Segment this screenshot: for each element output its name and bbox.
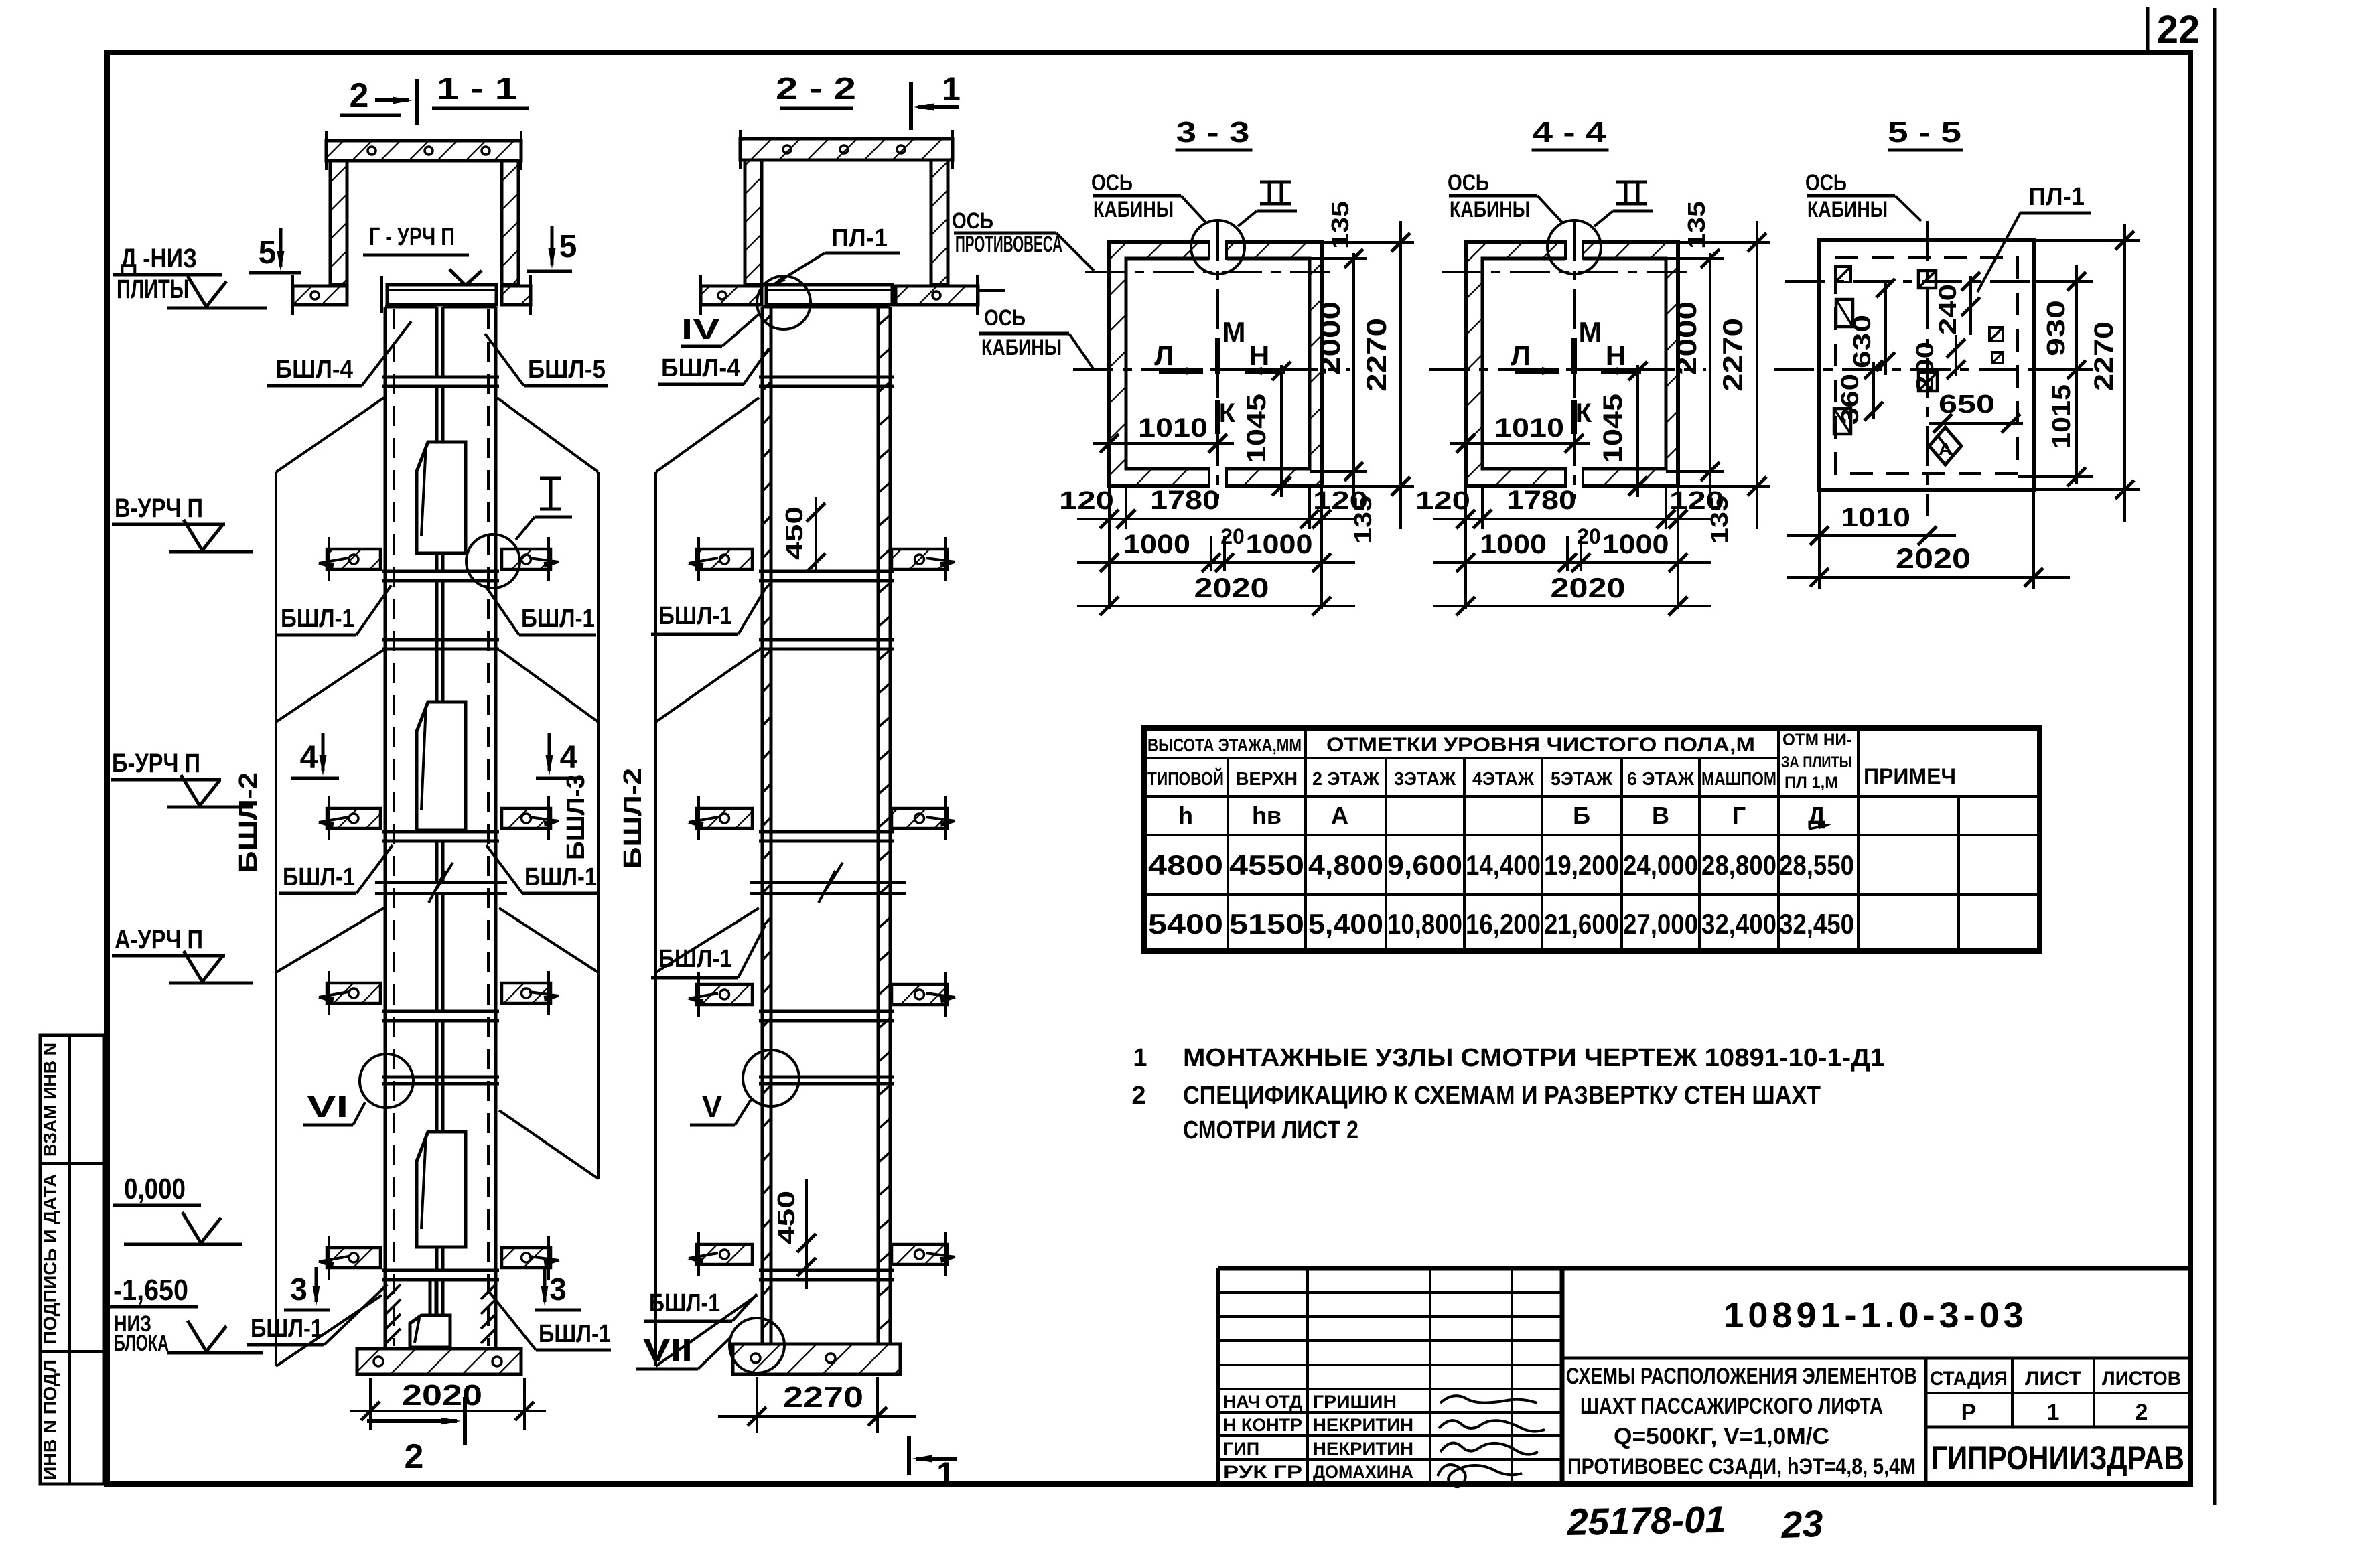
svg-text:Л: Л bbox=[1154, 340, 1174, 371]
svg-text:4800: 4800 bbox=[1148, 849, 1223, 881]
svg-text:4550: 4550 bbox=[1229, 849, 1304, 881]
svg-text:1780: 1780 bbox=[1150, 486, 1220, 515]
svg-text:Н КОНТР: Н КОНТР bbox=[1223, 1415, 1302, 1435]
detail circle IV bbox=[757, 276, 811, 329]
svg-text:СМОТРИ ЛИСТ 2: СМОТРИ ЛИСТ 2 bbox=[1183, 1116, 1358, 1145]
svg-text:БЛОКА: БЛОКА bbox=[114, 1331, 169, 1356]
svg-text:VII: VII bbox=[643, 1333, 693, 1368]
svg-text:2000: 2000 bbox=[1314, 301, 1346, 375]
svg-text:1: 1 bbox=[2047, 1400, 2060, 1425]
svg-text:2270: 2270 bbox=[1360, 318, 1392, 392]
plan walls 3 - 3 bbox=[1109, 242, 1322, 486]
svg-text:2020: 2020 bbox=[1896, 542, 1971, 574]
detail circle I bbox=[466, 534, 520, 588]
svg-text:БШЛ-1: БШЛ-1 bbox=[524, 863, 597, 891]
svg-text:10,800: 10,800 bbox=[1387, 908, 1462, 940]
svg-text:1000: 1000 bbox=[1480, 530, 1547, 559]
svg-text:2270: 2270 bbox=[1717, 318, 1748, 392]
svg-text:2020: 2020 bbox=[1551, 572, 1626, 603]
svg-text:КАБИНЫ: КАБИНЫ bbox=[1093, 197, 1174, 222]
svg-text:16,200: 16,200 bbox=[1466, 908, 1541, 940]
axes 3 - 3 bbox=[1085, 271, 1335, 273]
svg-text:1: 1 bbox=[1133, 1044, 1147, 1072]
pit wall hatching 1-1 bbox=[386, 1284, 401, 1299]
svg-text:1: 1 bbox=[936, 1455, 955, 1493]
svg-text:ОСЬ: ОСЬ bbox=[984, 305, 1026, 331]
svg-text:НАЧ ОТД: НАЧ ОТД bbox=[1223, 1392, 1302, 1412]
machine room top slab 1-1 bbox=[326, 141, 521, 161]
svg-text:1: 1 bbox=[942, 70, 961, 108]
section marker 1 bottom bbox=[907, 1436, 911, 1475]
anchor details 5-5 bbox=[1835, 267, 1851, 282]
bottom wall notch 4 - 4 bbox=[1565, 466, 1583, 489]
document number cell bbox=[1562, 1357, 2190, 1360]
svg-text:360: 360 bbox=[1836, 374, 1864, 425]
svg-text:5,400: 5,400 bbox=[1308, 908, 1383, 940]
top wall notch 3 - 3 bbox=[1209, 240, 1227, 261]
svg-text:25178-01: 25178-01 bbox=[1566, 1498, 1726, 1543]
svg-text:200: 200 bbox=[1911, 342, 1939, 392]
detail circle V bbox=[743, 1050, 799, 1106]
svg-text:БШЛ-2: БШЛ-2 bbox=[234, 772, 263, 873]
bottom dims 3 - 3 bbox=[1108, 486, 1111, 609]
svg-text:ВЫСОТА ЭТАЖА,ММ: ВЫСОТА ЭТАЖА,ММ bbox=[1147, 735, 1302, 755]
block joints 2-2 bbox=[762, 305, 890, 309]
central gap lines 1-1 bbox=[435, 307, 439, 377]
title block frame bbox=[1218, 1266, 2190, 1271]
plan walls 4 - 4 bbox=[1466, 242, 1678, 486]
svg-text:5: 5 bbox=[259, 235, 277, 271]
svg-text:СХЕМЫ РАСПОЛОЖЕНИЯ ЭЛЕМЕНТОВ: СХЕМЫ РАСПОЛОЖЕНИЯ ЭЛЕМЕНТОВ bbox=[1566, 1364, 1917, 1389]
svg-text:БШЛ-1: БШЛ-1 bbox=[251, 1315, 323, 1343]
shaft walls 1-1 bbox=[384, 307, 387, 1349]
signature table bbox=[1218, 1291, 1562, 1294]
svg-text:БШЛ-4: БШЛ-4 bbox=[661, 354, 740, 382]
svg-text:3: 3 bbox=[549, 1272, 567, 1307]
svg-text:1010: 1010 bbox=[1841, 503, 1910, 532]
svg-text:СТАДИЯ: СТАДИЯ bbox=[1930, 1368, 2008, 1390]
svg-text:650: 650 bbox=[1939, 390, 1995, 419]
svg-text:ИНВ N ПОДЛ: ИНВ N ПОДЛ bbox=[40, 1359, 60, 1480]
svg-text:Р: Р bbox=[1961, 1400, 1977, 1425]
svg-text:hв: hв bbox=[1252, 802, 1281, 829]
svg-text:19,200: 19,200 bbox=[1544, 849, 1619, 881]
svg-text:БШЛ-1: БШЛ-1 bbox=[539, 1320, 611, 1348]
svg-text:КАБИНЫ: КАБИНЫ bbox=[1450, 197, 1530, 222]
svg-text:32,400: 32,400 bbox=[1701, 908, 1776, 940]
svg-text:240: 240 bbox=[1934, 284, 1961, 335]
svg-text:2: 2 bbox=[2136, 1400, 2148, 1425]
svg-text:ПРОТИВОВЕС СЗАДИ, hЭТ=4,8, 5,4: ПРОТИВОВЕС СЗАДИ, hЭТ=4,8, 5,4М bbox=[1567, 1454, 1916, 1479]
svg-text:ТИПОВОЙ: ТИПОВОЙ bbox=[1147, 767, 1224, 789]
svg-text:1015: 1015 bbox=[2048, 384, 2076, 449]
svg-text:1010: 1010 bbox=[1494, 413, 1564, 443]
svg-text:2 ЭТАЖ: 2 ЭТАЖ bbox=[1312, 768, 1380, 789]
svg-text:0,000: 0,000 bbox=[124, 1173, 186, 1205]
top wall notch 4 - 4 bbox=[1565, 240, 1583, 261]
svg-text:ОСЬ: ОСЬ bbox=[952, 208, 993, 234]
svg-text:1045: 1045 bbox=[1598, 394, 1628, 463]
svg-text:ВЗАМ ИНВ N: ВЗАМ ИНВ N bbox=[40, 1043, 60, 1157]
svg-text:БШЛ-1: БШЛ-1 bbox=[283, 863, 355, 891]
svg-text:2000: 2000 bbox=[1671, 301, 1702, 375]
plan 5-5 dashed slab edge bbox=[1835, 258, 2018, 473]
svg-text:М: М bbox=[1222, 316, 1246, 348]
svg-text:ШАХТ ПАССАЖИРСКОГО ЛИФТА: ШАХТ ПАССАЖИРСКОГО ЛИФТА bbox=[1580, 1394, 1883, 1419]
svg-text:1000: 1000 bbox=[1123, 530, 1190, 559]
svg-text:МОНТАЖНЫЕ УЗЛЫ СМОТРИ ЧЕРТЕ: МОНТАЖНЫЕ УЗЛЫ СМОТРИ ЧЕРТЕЖ 10891-10-1-… bbox=[1183, 1044, 1885, 1072]
svg-text:5150: 5150 bbox=[1229, 908, 1304, 940]
storey floor slab brackets 2-2 bbox=[697, 549, 752, 569]
leader chevrons 1-1 left bbox=[275, 472, 277, 1366]
svg-text:БШЛ-1: БШЛ-1 bbox=[649, 1289, 720, 1317]
svg-text:Б: Б bbox=[1573, 802, 1590, 829]
svg-text:ОТМЕТКИ УРОВНЯ ЧИСТОГО ПОЛА: ОТМЕТКИ УРОВНЯ ЧИСТОГО ПОЛА,М bbox=[1326, 734, 1755, 756]
svg-text:1000: 1000 bbox=[1602, 530, 1669, 559]
detail circle VII bbox=[729, 1318, 784, 1373]
stadia list listov cells bbox=[1924, 1358, 1928, 1484]
svg-text:ЗА ПЛИТЫ: ЗА ПЛИТЫ bbox=[1781, 753, 1852, 771]
svg-text:20: 20 bbox=[1577, 524, 1601, 548]
svg-text:БШЛ-1: БШЛ-1 bbox=[281, 605, 354, 633]
svg-text:23: 23 bbox=[1780, 1502, 1823, 1544]
leader chevron 2-2 left bbox=[654, 472, 657, 1366]
right dims 3 - 3 bbox=[1352, 253, 1355, 497]
svg-text:630: 630 bbox=[1848, 315, 1876, 368]
svg-text:3: 3 bbox=[290, 1272, 307, 1307]
svg-text:2270: 2270 bbox=[2089, 321, 2119, 391]
svg-text:V: V bbox=[702, 1089, 723, 1124]
svg-text:2020: 2020 bbox=[402, 1379, 482, 1412]
svg-text:6 ЭТАЖ: 6 ЭТАЖ bbox=[1627, 768, 1695, 789]
svg-text:ГИПРОНИИЗДРАВ: ГИПРОНИИЗДРАВ bbox=[1931, 1439, 2184, 1477]
svg-text:14,400: 14,400 bbox=[1466, 849, 1541, 881]
foundation slab 1-1 bbox=[357, 1349, 521, 1374]
svg-text:4,800: 4,800 bbox=[1308, 849, 1383, 881]
svg-text:VI: VI bbox=[307, 1089, 348, 1124]
diamond mark A 5-5 bbox=[1929, 427, 1961, 465]
svg-text:1 - 1: 1 - 1 bbox=[437, 71, 517, 106]
svg-text:2 - 2: 2 - 2 bbox=[776, 71, 856, 106]
machine room right wall 2-2 bbox=[931, 160, 948, 285]
svg-text:450: 450 bbox=[780, 506, 808, 560]
bottom dims 4 - 4 bbox=[1464, 486, 1467, 609]
svg-text:3ЭТАЖ: 3ЭТАЖ bbox=[1394, 768, 1456, 789]
left stamp strip bbox=[40, 1035, 104, 1484]
detail circle II 3 - 3 bbox=[1191, 220, 1245, 274]
svg-text:Л: Л bbox=[1511, 340, 1530, 371]
machine room left wall 1-1 bbox=[330, 161, 347, 285]
svg-text:5: 5 bbox=[559, 229, 577, 265]
block joints 1-1 bbox=[385, 305, 437, 309]
svg-text:В-УРЧ П: В-УРЧ П bbox=[115, 494, 203, 523]
svg-text:КАБИНЫ: КАБИНЫ bbox=[1807, 197, 1888, 222]
svg-text:4: 4 bbox=[300, 740, 318, 776]
svg-text:Г - УРЧ П: Г - УРЧ П bbox=[369, 223, 455, 251]
svg-text:Н: Н bbox=[1606, 340, 1626, 371]
svg-text:В: В bbox=[1652, 802, 1669, 829]
svg-text:ОСЬ: ОСЬ bbox=[1448, 170, 1489, 196]
svg-text:ГИП: ГИП bbox=[1223, 1439, 1259, 1459]
svg-text:32,450: 32,450 bbox=[1779, 908, 1854, 940]
bottom wall notch 3 - 3 bbox=[1209, 466, 1227, 489]
svg-text:А-УРЧ П: А-УРЧ П bbox=[115, 925, 203, 954]
svg-text:2270: 2270 bbox=[783, 1381, 863, 1414]
right dims 4 - 4 bbox=[1709, 253, 1711, 497]
leader chevrons 1-1 right bbox=[597, 472, 600, 1179]
machine room floor slabs 2-2 bbox=[701, 286, 762, 305]
svg-text:9,600: 9,600 bbox=[1387, 849, 1462, 881]
shaft walls 2-2 hatched bbox=[761, 307, 764, 1344]
axes 4 - 4 bbox=[1442, 271, 1691, 273]
svg-text:ОТМ НИ-: ОТМ НИ- bbox=[1782, 731, 1852, 749]
svg-text:24,000: 24,000 bbox=[1623, 849, 1698, 881]
svg-text:5ЭТАЖ: 5ЭТАЖ bbox=[1551, 768, 1613, 789]
svg-text:5400: 5400 bbox=[1148, 908, 1223, 940]
svg-text:22: 22 bbox=[2157, 8, 2200, 52]
svg-text:4 - 4: 4 - 4 bbox=[1533, 116, 1607, 149]
svg-text:ПРОТИВОВЕСА: ПРОТИВОВЕСА bbox=[955, 232, 1062, 257]
storey height table bbox=[1144, 728, 2040, 951]
svg-text:120: 120 bbox=[1415, 487, 1470, 515]
svg-text:Д -НИЗ: Д -НИЗ bbox=[121, 244, 197, 273]
svg-text:2: 2 bbox=[1131, 1082, 1145, 1110]
svg-text:h: h bbox=[1178, 802, 1193, 829]
svg-text:А: А bbox=[1331, 802, 1348, 829]
svg-text:4: 4 bbox=[560, 740, 578, 776]
svg-text:120: 120 bbox=[1059, 487, 1114, 515]
svg-text:М: М bbox=[1579, 316, 1602, 348]
right dims 5-5 bbox=[2075, 265, 2078, 484]
svg-text:БШЛ-3: БШЛ-3 bbox=[562, 774, 590, 860]
axes 5-5 bbox=[1774, 368, 2046, 371]
signature squiggles bbox=[1440, 1396, 1537, 1403]
section marker 2 bottom bbox=[367, 1419, 457, 1423]
hidden edge dashed lines 1-1 bbox=[393, 309, 395, 1346]
svg-text:ПРИМЕЧ: ПРИМЕЧ bbox=[1864, 764, 1956, 788]
svg-text:Г: Г bbox=[1732, 802, 1746, 829]
svg-text:21,600: 21,600 bbox=[1544, 908, 1619, 940]
detail circle VI bbox=[360, 1054, 413, 1108]
svg-text:БШЛ-4: БШЛ-4 bbox=[275, 356, 353, 384]
svg-text:А: А bbox=[1939, 439, 1952, 459]
svg-text:К: К bbox=[1576, 398, 1592, 428]
bottom dims 5-5 bbox=[1818, 490, 1821, 589]
storey floor slab brackets 1-1 bbox=[327, 549, 380, 569]
svg-text:2: 2 bbox=[350, 76, 369, 115]
svg-text:120: 120 bbox=[1669, 487, 1724, 515]
svg-text:27,000: 27,000 bbox=[1623, 908, 1698, 940]
svg-text:1045: 1045 bbox=[1242, 394, 1271, 463]
svg-text:БШЛ-5: БШЛ-5 bbox=[528, 356, 606, 384]
svg-text:28,550: 28,550 bbox=[1779, 849, 1854, 881]
svg-text:ПЛ-1: ПЛ-1 bbox=[831, 224, 888, 252]
svg-text:НЕКРИТИН: НЕКРИТИН bbox=[1313, 1439, 1413, 1459]
pit walls and foundation 2-2 bbox=[733, 1344, 900, 1374]
svg-text:IV: IV bbox=[681, 313, 721, 346]
svg-text:930: 930 bbox=[2042, 300, 2071, 356]
sheet number box 22 bbox=[2146, 7, 2150, 54]
svg-text:2: 2 bbox=[405, 1437, 424, 1476]
svg-text:ОСЬ: ОСЬ bbox=[1091, 170, 1133, 196]
svg-text:120: 120 bbox=[1313, 487, 1368, 515]
svg-text:НЕКРИТИН: НЕКРИТИН bbox=[1313, 1415, 1413, 1435]
svg-text:20: 20 bbox=[1220, 524, 1245, 548]
svg-text:ЛИСТОВ: ЛИСТОВ bbox=[2102, 1368, 2181, 1390]
svg-text:РУК ГР: РУК ГР bbox=[1223, 1462, 1302, 1482]
svg-text:28,800: 28,800 bbox=[1701, 849, 1776, 881]
machine room top slab 2-2 bbox=[740, 139, 953, 160]
svg-text:БШЛ-2: БШЛ-2 bbox=[619, 768, 647, 869]
svg-text:К: К bbox=[1219, 398, 1236, 428]
door opening symbols 1-1 bbox=[435, 386, 439, 442]
svg-text:1780: 1780 bbox=[1507, 486, 1576, 515]
svg-text:БШЛ-1: БШЛ-1 bbox=[658, 602, 732, 630]
svg-text:КАБИНЫ: КАБИНЫ bbox=[981, 335, 1062, 360]
svg-text:МАШПОМ: МАШПОМ bbox=[1701, 768, 1776, 789]
plan 5-5 outline bbox=[1819, 240, 2034, 490]
svg-text:2020: 2020 bbox=[1194, 572, 1269, 603]
svg-text:450: 450 bbox=[772, 1191, 800, 1244]
svg-text:ПЛИТЫ: ПЛИТЫ bbox=[117, 275, 189, 304]
svg-text:ПЛ 1,М: ПЛ 1,М bbox=[1784, 773, 1838, 792]
svg-text:ОСЬ: ОСЬ bbox=[1805, 170, 1847, 196]
svg-text:ЛИСТ: ЛИСТ bbox=[2025, 1368, 2081, 1390]
svg-text:Б-УРЧ П: Б-УРЧ П bbox=[112, 749, 200, 778]
svg-text:1000: 1000 bbox=[1246, 530, 1313, 559]
svg-text:Н: Н bbox=[1249, 340, 1269, 371]
svg-text:1010: 1010 bbox=[1138, 413, 1208, 443]
svg-text:3 - 3: 3 - 3 bbox=[1176, 116, 1250, 149]
svg-text:ПЛ-1: ПЛ-1 bbox=[2028, 183, 2085, 211]
svg-text:ВЕРХН: ВЕРХН bbox=[1236, 768, 1298, 789]
machine room left wall 2-2 bbox=[745, 160, 762, 285]
detail circle II 4 - 4 bbox=[1547, 220, 1601, 274]
svg-text:10891-1.0-3-03: 10891-1.0-3-03 bbox=[1724, 1295, 2027, 1335]
break line 1-1 bbox=[375, 881, 507, 884]
svg-text:БШЛ-1: БШЛ-1 bbox=[521, 605, 595, 633]
svg-text:4ЭТАЖ: 4ЭТАЖ bbox=[1472, 768, 1535, 789]
svg-text:Q=500КГ, V=1,0М/С: Q=500КГ, V=1,0М/С bbox=[1614, 1424, 1829, 1449]
svg-text:ДОМАХИНА: ДОМАХИНА bbox=[1313, 1462, 1413, 1482]
break line 2-2 bbox=[750, 881, 906, 884]
svg-text:ГРИШИН: ГРИШИН bbox=[1313, 1392, 1397, 1412]
machine room right wall 1-1 bbox=[502, 161, 518, 285]
svg-text:5 - 5: 5 - 5 bbox=[1888, 116, 1961, 149]
svg-text:ПОДПИСЬ И ДАТА: ПОДПИСЬ И ДАТА bbox=[40, 1174, 60, 1345]
svg-text:СПЕЦИФИКАЦИЮ К СХЕМАМ И РА: СПЕЦИФИКАЦИЮ К СХЕМАМ И РАЗВЕРТКУ СТЕН Ш… bbox=[1183, 1082, 1821, 1110]
machine room floor slabs 1-1 bbox=[293, 286, 347, 305]
svg-text:-1,650: -1,650 bbox=[113, 1274, 188, 1307]
